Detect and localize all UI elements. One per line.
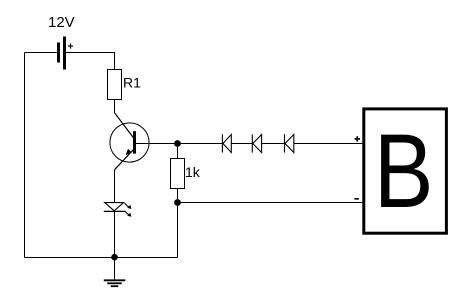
wire base to junction and diode D2 xyxy=(148,143,222,145)
wire emitter to LED xyxy=(114,170,116,203)
ground xyxy=(104,258,126,287)
LED D1 xyxy=(104,203,132,217)
junction base node xyxy=(174,140,181,147)
wire R1 bottom to collector xyxy=(114,100,116,113)
label plus terminal xyxy=(355,136,361,141)
wire junction to 1k resistor xyxy=(177,144,179,159)
label minus terminal xyxy=(354,198,359,200)
wire D3 to D4 xyxy=(262,143,285,145)
wire minus rail to load xyxy=(178,202,363,204)
battery B1 positive plate xyxy=(63,37,66,70)
battery plus polarity mark xyxy=(68,43,73,48)
junction minus node xyxy=(174,199,181,206)
wire D4 to load plus xyxy=(294,143,363,145)
wire bottom rail horizontal xyxy=(25,257,178,259)
wire battery to R1 top xyxy=(66,53,115,70)
wire D2 to D3 xyxy=(231,143,252,145)
resistor R1 xyxy=(108,70,122,100)
svg-text:R1: R1 xyxy=(123,75,141,91)
resistor R2 1k xyxy=(171,159,185,189)
diode D3 xyxy=(252,134,261,152)
svg-text:1k: 1k xyxy=(185,164,201,180)
svg-text:12V: 12V xyxy=(48,14,75,31)
wire top-left from left rail to battery xyxy=(25,52,57,54)
diode D2 xyxy=(222,134,231,152)
transistor Q1 xyxy=(110,113,149,170)
junction ground node xyxy=(111,254,118,261)
load B box xyxy=(364,109,447,233)
wire 1k bottom down to bottom rail xyxy=(177,189,179,258)
wire LED to bottom rail xyxy=(114,211,116,257)
svg-text:B: B xyxy=(374,112,434,229)
wire left rail vertical xyxy=(24,53,26,258)
battery B1 negative plate xyxy=(57,43,60,63)
diode D4 xyxy=(285,134,294,152)
